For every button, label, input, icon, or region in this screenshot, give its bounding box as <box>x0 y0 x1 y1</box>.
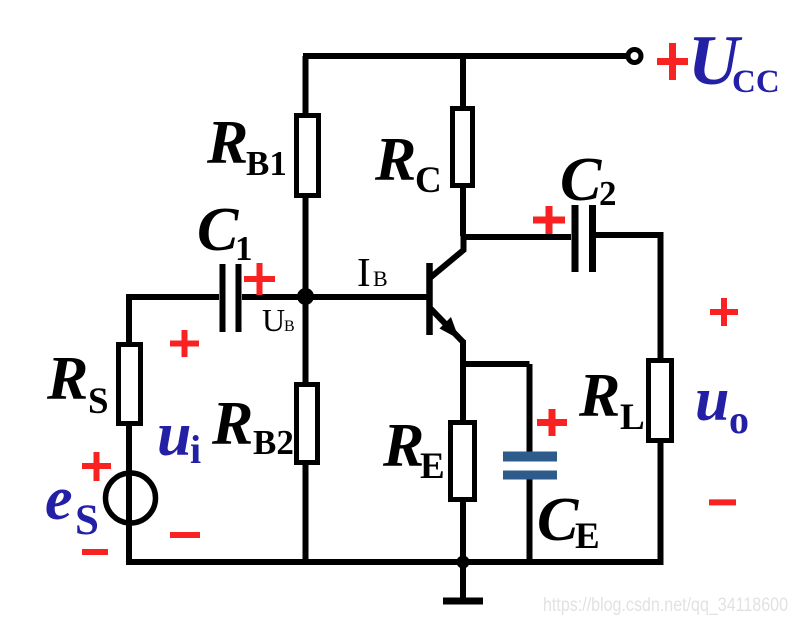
svg-text:E: E <box>420 446 445 487</box>
svg-text:R: R <box>374 126 416 194</box>
svg-text:S: S <box>75 497 99 544</box>
svg-text:i: i <box>190 427 201 472</box>
svg-text:U: U <box>262 302 285 338</box>
svg-text:CC: CC <box>732 64 780 100</box>
svg-text:C: C <box>537 486 579 554</box>
svg-text:B2: B2 <box>253 423 294 462</box>
svg-text:C: C <box>560 146 602 214</box>
svg-text:e: e <box>45 465 73 533</box>
svg-text:u: u <box>695 366 729 434</box>
svg-text:B1: B1 <box>246 144 287 183</box>
svg-text:o: o <box>729 397 749 442</box>
svg-text:S: S <box>88 381 109 422</box>
svg-text:B: B <box>284 318 295 335</box>
svg-text:R: R <box>46 345 88 413</box>
svg-text:C: C <box>415 160 442 201</box>
svg-text:B: B <box>373 266 388 291</box>
svg-text:2: 2 <box>599 174 617 213</box>
svg-text:1: 1 <box>235 229 253 268</box>
svg-text:R: R <box>206 109 248 177</box>
svg-text:R: R <box>211 390 253 458</box>
svg-text:R: R <box>382 412 424 480</box>
svg-text:u: u <box>157 401 191 469</box>
svg-text:R: R <box>578 362 620 430</box>
svg-text:https://blog.csdn.net/qq_34118: https://blog.csdn.net/qq_34118600 <box>543 595 788 616</box>
svg-text:I: I <box>357 249 371 295</box>
svg-text:E: E <box>575 516 600 557</box>
svg-text:C: C <box>197 196 239 264</box>
svg-text:L: L <box>620 397 645 438</box>
